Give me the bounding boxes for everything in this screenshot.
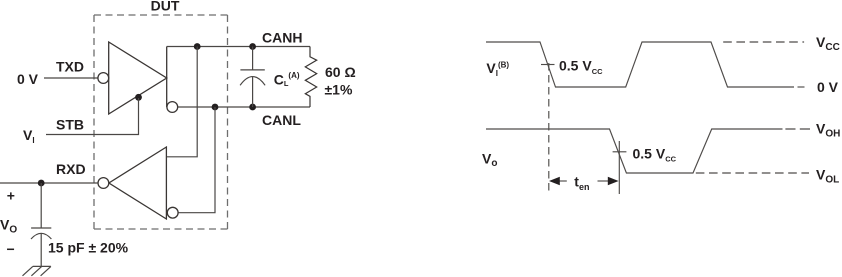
wire driver output bar [166, 47, 168, 108]
driver input bubble [98, 73, 109, 84]
VOL level dashed line [696, 172, 809, 174]
svg-text:0 V: 0 V [817, 79, 839, 95]
receiver output bubble [98, 178, 109, 189]
receiver bottom input bubble [167, 207, 178, 218]
svg-text:VO: VO [0, 217, 17, 236]
waveform VI trace [486, 42, 794, 87]
svg-text:+: + [7, 188, 15, 204]
capacitor CL top plate [240, 69, 264, 71]
svg-text:ten: ten [574, 174, 589, 192]
t_en right arrow [598, 180, 610, 182]
wire TXD input [44, 77, 98, 79]
svg-text:DUT: DUT [151, 0, 180, 14]
svg-text:0.5 VCC: 0.5 VCC [559, 58, 603, 76]
capacitor C2 top plate [31, 227, 51, 229]
node junction dot CANL-B [249, 104, 256, 111]
t_en left arrow [559, 180, 567, 182]
resistor R1 60 ohm zigzag [305, 47, 316, 108]
wire STB [46, 98, 139, 135]
svg-text:60 Ω: 60 Ω [325, 64, 356, 80]
DUT dashed box [94, 15, 228, 229]
vertical solid timing line [618, 141, 620, 194]
ground symbol [23, 266, 51, 275]
wire CANL to receiver bottom input [178, 107, 215, 213]
svg-text:0.5 VCC: 0.5 VCC [633, 145, 677, 163]
svg-text:Vo: Vo [482, 151, 497, 170]
node junction dot CANH-B [249, 43, 256, 50]
capacitor CL curved plate [240, 77, 265, 86]
wire CANL [178, 106, 310, 108]
wire CANH [167, 46, 310, 48]
wire RXD output [0, 182, 98, 184]
waveform VI 0V end dash [798, 86, 805, 88]
VCC level dashed line [723, 41, 804, 43]
capacitor C2 curved plate [31, 233, 51, 239]
CANL output bubble [167, 102, 178, 113]
node junction dot CANL-A [212, 104, 219, 111]
vertical dashed timing line [548, 63, 550, 194]
svg-text:VI: VI [23, 127, 35, 145]
svg-text:RXD: RXD [56, 161, 86, 177]
VOH level dashes [785, 128, 810, 130]
svg-text:VOH: VOH [816, 121, 840, 140]
wire CANH to receiver top input [166, 47, 197, 157]
waveform VO trace [486, 129, 783, 173]
svg-text:VI(B): VI(B) [486, 60, 509, 78]
op-amp U1 driver triangle [109, 42, 167, 114]
svg-text:CANL: CANL [262, 112, 301, 128]
capacitor C2 wire bottom [40, 233, 42, 266]
node STB junction dot [135, 94, 142, 101]
svg-text:−: − [7, 241, 15, 257]
svg-text:CL(A): CL(A) [274, 71, 300, 88]
0.5VCC crossing tick bottom [613, 151, 627, 153]
svg-text:CANH: CANH [262, 30, 302, 46]
capacitor CL wire top [252, 47, 254, 70]
node junction dot RXD [38, 180, 45, 187]
svg-text:STB: STB [56, 117, 84, 133]
capacitor C2 wire top [40, 183, 42, 228]
svg-text:±1%: ±1% [325, 82, 353, 98]
svg-text:15 pF ± 20%: 15 pF ± 20% [48, 240, 129, 256]
capacitor CL wire bottom [252, 76, 254, 107]
svg-text:VOL: VOL [816, 167, 839, 186]
0.5VCC crossing tick top [541, 64, 555, 66]
svg-text:TXD: TXD [56, 59, 84, 75]
node junction dot CANH-A [194, 43, 201, 50]
svg-text:VCC: VCC [816, 34, 840, 53]
op-amp U2 receiver triangle [109, 147, 166, 219]
svg-text:0 V: 0 V [17, 71, 39, 87]
